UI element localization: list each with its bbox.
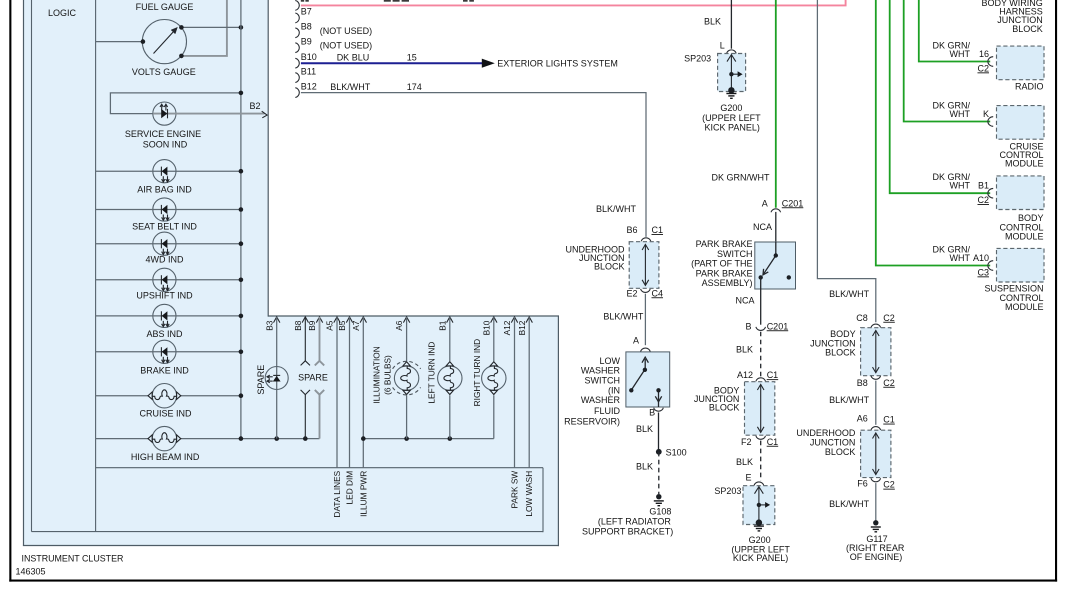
- connector terminal B10 arc: [295, 58, 299, 68]
- connector arc into RADIO: [988, 57, 993, 67]
- svg-text:AIR BAG IND: AIR BAG IND: [137, 184, 192, 194]
- switch exit wire: [760, 277, 762, 324]
- svg-text:(IN: (IN: [608, 386, 620, 396]
- svg-text:WHT: WHT: [950, 109, 971, 119]
- 4wd ind row wire: [153, 232, 176, 255]
- svg-text:BLK: BLK: [636, 462, 653, 472]
- connector arc C8: [871, 324, 881, 328]
- logic right bus wire: [240, 0, 242, 439]
- svg-text:C2: C2: [977, 63, 989, 73]
- svg-text:B10: B10: [301, 52, 317, 62]
- BODY module box (dashed): [997, 176, 1045, 210]
- cluster outer box border left edge: [23, 0, 25, 546]
- pin B3 arrow: [274, 317, 280, 323]
- svg-text:E2: E2: [626, 288, 637, 298]
- connector arc into SUSPENSION: [988, 261, 993, 271]
- pin B9 spare cavity break: [315, 317, 324, 439]
- volts gauge needle: [154, 28, 177, 54]
- SP203 splice pack box 2 (dashed): [743, 486, 775, 525]
- splice pack internals: [727, 55, 743, 89]
- svg-text:WHT: WHT: [950, 181, 971, 191]
- connector arc F2: [756, 436, 766, 440]
- svg-text:SOON IND: SOON IND: [143, 139, 188, 149]
- connector terminal B12 arc: [295, 88, 299, 98]
- svg-text:WASHER: WASHER: [581, 395, 621, 405]
- pin B1 arrow: [447, 317, 453, 323]
- svg-text:BLOCK: BLOCK: [594, 262, 625, 272]
- park brake switch box: [755, 242, 796, 289]
- DK GRN/WHT wire to CRUISE: [904, 0, 991, 122]
- svg-text:C1: C1: [767, 370, 779, 380]
- svg-text:B10: B10: [481, 320, 491, 335]
- svg-text:S100: S100: [666, 448, 687, 458]
- service engine B2 wire: [176, 113, 265, 115]
- underhood junction block 1 (dashed): [629, 242, 659, 289]
- svg-text:LOW WASH: LOW WASH: [524, 471, 534, 517]
- connector terminal B8 arc: [295, 28, 299, 38]
- BLK/WHT wire 3: [875, 483, 877, 521]
- svg-text:B8: B8: [293, 320, 303, 331]
- service engine soon ind row wire: [110, 93, 241, 114]
- bus top node dot: [239, 25, 244, 30]
- svg-text:A: A: [762, 198, 768, 208]
- ground G108: [656, 494, 661, 499]
- BLK dashed wire: [760, 332, 762, 377]
- B2 exit arrow: [262, 111, 267, 118]
- svg-text:F2: F2: [741, 437, 752, 447]
- SP203 splice pack box (dashed): [718, 54, 746, 92]
- svg-text:UNDERHOOD: UNDERHOOD: [796, 428, 856, 438]
- svg-text:A5: A5: [325, 320, 335, 331]
- cluster inner box bottom edge: [32, 531, 544, 533]
- svg-text:B9: B9: [307, 320, 317, 331]
- svg-text:NCA: NCA: [735, 296, 754, 306]
- svg-text:174: 174: [407, 82, 422, 92]
- svg-text:B3: B3: [264, 320, 274, 331]
- svg-text:B12: B12: [301, 81, 317, 91]
- svg-text:B11: B11: [301, 66, 316, 76]
- BLK/WHT wire to washer switch: [644, 294, 646, 346]
- upshift ind row wire: [153, 268, 176, 291]
- svg-text:B8: B8: [301, 22, 312, 32]
- svg-text:PARK BRAKE: PARK BRAKE: [696, 239, 753, 249]
- svg-text:HIGH BEAM IND: HIGH BEAM IND: [131, 452, 200, 462]
- svg-text:EXTERIOR LIGHTS SYSTEM: EXTERIOR LIGHTS SYSTEM: [497, 59, 618, 69]
- B10 row dark blue wire: [301, 62, 482, 64]
- svg-text:C1: C1: [883, 415, 895, 425]
- pin B8 spare cavity break: [301, 317, 310, 439]
- connector arc into BODY: [988, 188, 993, 198]
- connector arc A: [641, 348, 651, 352]
- svg-text:RADIO: RADIO: [1015, 82, 1044, 92]
- svg-text:DATA LINES: DATA LINES: [332, 470, 342, 517]
- svg-text:C4: C4: [652, 288, 664, 298]
- low washer switch box: [626, 352, 670, 407]
- pin A7 arrow: [360, 317, 366, 323]
- lamp bus wire: [363, 438, 494, 440]
- svg-text:BLK/WHT: BLK/WHT: [330, 82, 371, 92]
- volts gauge left node dot: [141, 39, 146, 44]
- page frame left border: [9, 0, 11, 582]
- svg-text:B9: B9: [301, 37, 312, 47]
- cluster connector strip box right edge: [542, 468, 544, 533]
- cluster inner box left edge: [31, 0, 33, 532]
- svg-text:PARK BRAKE: PARK BRAKE: [696, 268, 753, 278]
- left turn ind lamp (B1): [449, 317, 451, 361]
- svg-text:C2: C2: [883, 480, 895, 490]
- svg-text:B1: B1: [437, 320, 447, 331]
- connector arc B6: [641, 238, 651, 242]
- svg-text:BLK: BLK: [636, 424, 653, 434]
- svg-text:BLOCK: BLOCK: [709, 402, 740, 412]
- spare LED (B3): [265, 367, 288, 390]
- connector arc E2: [641, 289, 651, 293]
- svg-text:B7: B7: [301, 7, 312, 17]
- pin B12 arrow: [526, 317, 532, 323]
- DK GRN/WHT wire to BODY: [890, 0, 991, 193]
- svg-text:CRUISE IND: CRUISE IND: [139, 409, 192, 419]
- svg-text:RESERVOIR): RESERVOIR): [564, 416, 620, 426]
- svg-text:DK GRN/WHT: DK GRN/WHT: [712, 173, 770, 183]
- cluster outer box border bottom edge: [23, 545, 559, 547]
- svg-text:SUSPENSION: SUSPENSION: [984, 283, 1043, 293]
- connector arc A/C201: [771, 209, 781, 213]
- pin A5 arrow: [334, 317, 340, 323]
- connector terminal B9 arc: [295, 43, 299, 53]
- svg-text:B1: B1: [978, 181, 989, 191]
- connector arc B washer: [654, 408, 664, 412]
- svg-text:C201: C201: [767, 321, 789, 331]
- connector terminal B11 arc: [295, 73, 299, 83]
- svg-text:LEFT TURN IND: LEFT TURN IND: [426, 342, 436, 404]
- svg-text:SUPPORT BRACKET): SUPPORT BRACKET): [582, 527, 673, 537]
- svg-text:B2: B2: [250, 101, 261, 111]
- connector arc L: [727, 50, 737, 54]
- high beam ind row wire and lamp: [96, 438, 149, 440]
- logic box left edge: [95, 0, 97, 532]
- connector arc B/C201: [756, 327, 766, 331]
- pin B3 wire to spare LED: [276, 317, 278, 439]
- svg-text:L: L: [720, 41, 725, 51]
- BLK wire to S100: [658, 413, 660, 452]
- svg-text:LOW: LOW: [599, 356, 620, 366]
- BLK dashed wire 2: [760, 441, 762, 481]
- connector arc F6: [871, 478, 881, 482]
- svg-text:DK BLU: DK BLU: [337, 53, 370, 63]
- body junction block (dashed, right): [861, 328, 891, 376]
- svg-text:C1: C1: [767, 437, 779, 447]
- pin B10 arrow: [491, 317, 497, 323]
- svg-text:ILLUMINATION: ILLUMINATION: [371, 346, 381, 403]
- svg-text:OF ENGINE): OF ENGINE): [850, 552, 903, 562]
- svg-text:C2: C2: [977, 195, 989, 205]
- svg-text:RIGHT TURN IND: RIGHT TURN IND: [472, 339, 482, 406]
- page frame right border: [1055, 0, 1057, 582]
- svg-text:BLK: BLK: [704, 17, 721, 27]
- cluster outer box border right edge: [557, 316, 559, 546]
- svg-text:MODULE: MODULE: [1005, 159, 1044, 169]
- svg-text:SP203: SP203: [684, 53, 711, 63]
- svg-text:INSTRUMENT CLUSTER: INSTRUMENT CLUSTER: [22, 554, 124, 564]
- svg-text:B5: B5: [337, 320, 347, 331]
- DK GRN/WHT wire from top: [775, 0, 777, 208]
- svg-text:BLOCK: BLOCK: [825, 447, 856, 457]
- svg-text:G200: G200: [720, 103, 742, 113]
- service engine soon ind LED: [153, 102, 176, 125]
- volts gauge circle: [142, 19, 186, 63]
- svg-text:C1: C1: [652, 225, 664, 235]
- svg-text:G108: G108: [649, 506, 671, 516]
- BLK wire from top: [730, 0, 732, 49]
- svg-text:SEAT BELT IND: SEAT BELT IND: [132, 222, 197, 232]
- pin A7 wire: [362, 317, 364, 468]
- splice S100: [656, 449, 662, 455]
- svg-text:LOGIC: LOGIC: [48, 8, 77, 18]
- svg-text:A10: A10: [973, 253, 989, 263]
- pin B5 wire: [349, 317, 351, 468]
- fuel gauge loop wire (thick): [182, 0, 227, 56]
- right turn ind lamp (B10): [493, 317, 495, 361]
- volts gauge top-right node dot: [179, 25, 184, 30]
- page frame bottom border: [9, 580, 1057, 582]
- underhood junction block (dashed, right): [861, 430, 891, 477]
- svg-text:WASHER: WASHER: [581, 366, 621, 376]
- svg-text:LED DIM: LED DIM: [345, 471, 355, 505]
- pin B5 arrow: [346, 317, 352, 323]
- svg-text:MODULE: MODULE: [1005, 231, 1044, 241]
- volts gauge bottom-right node dot: [179, 54, 184, 59]
- svg-text:PARK SW: PARK SW: [510, 471, 520, 509]
- BLK dashed wire to G108: [658, 452, 660, 494]
- brake ind row wire: [153, 340, 176, 363]
- SUSPENSION module box (dashed): [997, 248, 1045, 282]
- svg-text:VOLTS GAUGE: VOLTS GAUGE: [132, 67, 196, 77]
- svg-text:C2: C2: [883, 313, 895, 323]
- BLK/WHT wire 2: [875, 381, 877, 425]
- volts gauge top-right wire to bus: [181, 26, 241, 28]
- svg-text:SERVICE ENGINE: SERVICE ENGINE: [125, 129, 201, 139]
- svg-text:SPARE: SPARE: [298, 372, 328, 382]
- splice pack 2 internals: [755, 487, 771, 522]
- svg-text:MODULE: MODULE: [1005, 302, 1044, 312]
- connector arc E: [754, 482, 764, 486]
- svg-text:KICK PANEL): KICK PANEL): [705, 122, 760, 132]
- pin A6 arrow: [403, 317, 409, 323]
- seat belt ind row wire: [153, 198, 176, 221]
- DK GRN/WHT wire to RADIO: [919, 0, 990, 62]
- air bag ind row wire: [153, 160, 176, 183]
- svg-text:ABS IND: ABS IND: [146, 329, 183, 339]
- pin B12 wire: [528, 317, 530, 468]
- svg-text:(LEFT RADIATOR: (LEFT RADIATOR: [598, 517, 672, 527]
- svg-text:BLK: BLK: [736, 457, 753, 467]
- svg-text:K: K: [983, 109, 989, 119]
- NCA wire to switch: [775, 212, 777, 256]
- svg-text:C3: C3: [977, 267, 989, 277]
- svg-text:B: B: [745, 321, 751, 331]
- ground G117: [873, 520, 878, 525]
- pin A12 arrow: [511, 317, 517, 323]
- svg-text:C8: C8: [856, 313, 868, 323]
- svg-text:BLOCK: BLOCK: [825, 348, 856, 358]
- svg-text:KICK PANEL): KICK PANEL): [733, 553, 788, 563]
- CRUISE module box (dashed): [997, 106, 1045, 140]
- B12 row BLK/WHT wire to underhood junction block: [301, 93, 646, 237]
- svg-text:146305: 146305: [16, 567, 46, 577]
- svg-text:15: 15: [407, 53, 417, 63]
- svg-text:ASSEMBLY): ASSEMBLY): [702, 278, 753, 288]
- svg-text:BLOCK: BLOCK: [1012, 24, 1043, 34]
- washer switch symbol: [632, 357, 662, 407]
- svg-text:(6 BULBS): (6 BULBS): [382, 355, 392, 395]
- illumination lamp (A6): [406, 317, 408, 361]
- pin B8 arrow: [302, 317, 308, 323]
- svg-text:A12: A12: [502, 320, 512, 335]
- cruise ind row wire and lamp: [96, 395, 149, 397]
- pin B9 arrow: [316, 317, 322, 323]
- svg-text:A12: A12: [737, 370, 753, 380]
- svg-text:E: E: [745, 473, 751, 483]
- pin A5 wire: [336, 317, 338, 468]
- svg-text:SWITCH: SWITCH: [717, 249, 753, 259]
- svg-text:A6: A6: [857, 414, 868, 424]
- connector arc into CRUISE: [988, 117, 993, 127]
- connector arc B8: [871, 376, 881, 380]
- svg-text:FLUID: FLUID: [594, 406, 621, 416]
- cluster connector strip box top edge: [96, 467, 543, 469]
- RADIO module box (dashed): [997, 46, 1045, 80]
- svg-text:WHT: WHT: [950, 253, 971, 263]
- svg-text:BLK/WHT: BLK/WHT: [829, 395, 870, 405]
- svg-text:(PART OF THE: (PART OF THE: [691, 259, 752, 269]
- B6 row pink wire: [301, 0, 846, 5]
- connector arc A6: [871, 427, 881, 431]
- park brake switch symbol: [763, 256, 776, 275]
- svg-text:B8: B8: [857, 378, 868, 388]
- exterior lights system arrow: [482, 59, 495, 68]
- svg-text:NCA: NCA: [753, 222, 772, 232]
- body junction block (dashed, middle): [745, 382, 775, 436]
- ground G200 (lower): [756, 519, 762, 525]
- connector arc A12: [756, 378, 766, 382]
- svg-text:WHT: WHT: [950, 49, 971, 59]
- cluster notch bottom edge: [268, 315, 559, 317]
- svg-text:A7: A7: [351, 320, 361, 331]
- svg-text:BLK/WHT: BLK/WHT: [829, 289, 870, 299]
- svg-text:SPARE: SPARE: [256, 365, 266, 395]
- svg-text:(NOT USED): (NOT USED): [320, 41, 372, 51]
- svg-text:A: A: [633, 336, 639, 346]
- svg-text:F6: F6: [857, 479, 868, 489]
- svg-text:C201: C201: [782, 198, 804, 208]
- svg-text:B12: B12: [517, 320, 527, 335]
- svg-text:C2: C2: [883, 378, 895, 388]
- bus node dot service engine: [239, 91, 244, 96]
- svg-text:SWITCH: SWITCH: [585, 375, 621, 385]
- BLK/WHT wire elbow from top: [817, 0, 875, 322]
- pin A12 wire: [514, 317, 516, 468]
- ground G200 (upper): [728, 87, 734, 93]
- svg-text:FUEL GAUGE: FUEL GAUGE: [136, 2, 194, 12]
- svg-text:UPSHIFT IND: UPSHIFT IND: [136, 290, 193, 300]
- DK GRN/WHT wire to SUSPENSION: [876, 0, 990, 266]
- svg-text:4WD IND: 4WD IND: [146, 254, 185, 264]
- svg-text:16: 16: [979, 49, 989, 59]
- connector terminal B7 arc: [295, 13, 299, 23]
- connector terminal B6 arc: [295, 1, 299, 11]
- cropped B6 row text fragments: [301, 0, 474, 2]
- svg-text:BODY: BODY: [830, 329, 856, 339]
- svg-text:BLK/WHT: BLK/WHT: [603, 311, 644, 321]
- svg-text:B6: B6: [626, 225, 637, 235]
- svg-text:BLK/WHT: BLK/WHT: [596, 204, 637, 214]
- svg-text:SP203: SP203: [714, 486, 741, 496]
- svg-text:BLK: BLK: [736, 345, 753, 355]
- svg-text:BLK/WHT: BLK/WHT: [829, 499, 870, 509]
- cluster notch left edge: [267, 0, 269, 317]
- svg-text:BRAKE IND: BRAKE IND: [140, 365, 189, 375]
- svg-text:ILLUM PWR: ILLUM PWR: [358, 471, 368, 517]
- svg-text:A6: A6: [394, 320, 404, 331]
- volts gauge left wire: [96, 41, 143, 43]
- svg-text:(NOT USED): (NOT USED): [320, 26, 372, 36]
- instrument cluster outer box (light blue, notched): [24, 0, 559, 546]
- abs ind row wire: [153, 304, 176, 327]
